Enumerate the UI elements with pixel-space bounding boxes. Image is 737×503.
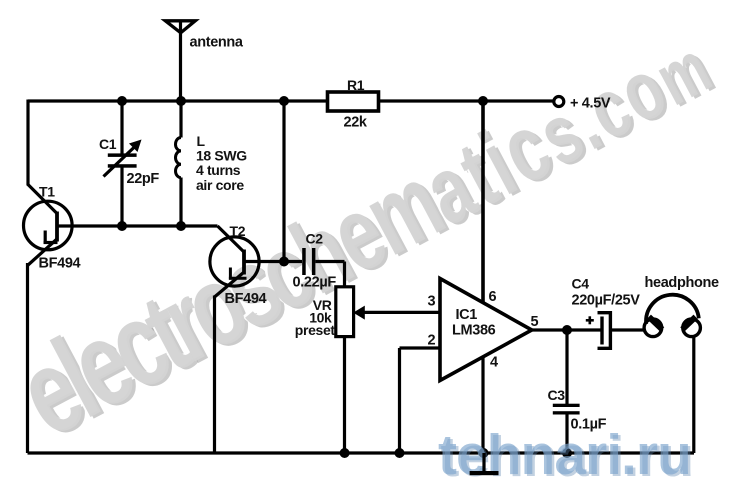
- wire top rail left of R1: [28, 99, 328, 102]
- svg-text:preset: preset: [295, 322, 336, 338]
- wire pin 4 to rail: [481, 358, 484, 454]
- svg-text:BF494: BF494: [39, 256, 81, 272]
- node pin6 top: [478, 96, 488, 106]
- svg-text:T1: T1: [39, 184, 55, 200]
- svg-text:+ 4.5V: + 4.5V: [570, 96, 611, 112]
- node antenna/L top: [176, 96, 186, 106]
- wire T1 emitter vertical: [26, 263, 29, 453]
- wire left vertical (T1 collector up): [26, 100, 29, 186]
- wire headphone right to rail: [692, 337, 695, 454]
- watermark tehnari.ru: [438, 423, 693, 489]
- svg-text:22k: 22k: [344, 115, 368, 131]
- svg-text:T2: T2: [230, 223, 246, 239]
- wire L top: [179, 100, 182, 138]
- capacitor C2: [293, 231, 337, 291]
- node pin2 bottom: [395, 448, 405, 458]
- wire top rail right of R1: [379, 99, 554, 102]
- transistor T1: [24, 184, 81, 272]
- wire top rail to T2 base junction: [282, 101, 285, 262]
- wire C1 bottom: [120, 168, 123, 227]
- svg-text:5: 5: [531, 314, 539, 330]
- node VR bottom: [340, 448, 350, 458]
- wire T2 base lead: [244, 260, 284, 263]
- wire L bottom: [179, 178, 182, 227]
- node pin5 / C4 / C3: [562, 325, 572, 335]
- wire C2 left lead: [284, 260, 302, 263]
- svg-text:headphone: headphone: [645, 275, 719, 291]
- node L bottom: [176, 221, 186, 231]
- svg-text:LM386: LM386: [452, 323, 496, 339]
- node C1 top: [117, 96, 127, 106]
- svg-text:IC1: IC1: [456, 307, 478, 323]
- wire C3 bottom: [565, 415, 568, 454]
- svg-text:4: 4: [490, 355, 498, 371]
- potentiometer VR: [295, 287, 365, 338]
- resistor R1: [328, 92, 379, 111]
- wire C3 top: [565, 330, 568, 404]
- svg-text:R1: R1: [347, 77, 365, 93]
- svg-text:22pF: 22pF: [127, 171, 160, 187]
- svg-text:tehnari.ru: tehnari.ru: [438, 423, 691, 487]
- wire C4 to headphone: [612, 328, 646, 331]
- wire T2 emitter vertical: [213, 296, 216, 454]
- node C1 bottom: [117, 221, 127, 231]
- svg-text:C4: C4: [572, 276, 590, 292]
- transistor T2: [210, 223, 267, 307]
- node T2 base riser top: [279, 96, 289, 106]
- svg-text:4 turns: 4 turns: [196, 162, 241, 178]
- node ground: [479, 448, 489, 458]
- wire T1 collector diagonal: [28, 185, 57, 214]
- wire C2 right lead: [316, 260, 345, 263]
- wire bottom ground rail: [28, 451, 695, 454]
- wire VR wiper to pin 3: [362, 311, 439, 314]
- wire pin 6 from top rail: [481, 101, 485, 303]
- node +4.5V terminal: [554, 97, 564, 107]
- wire T1 base rail to T2: [57, 224, 218, 227]
- wire VR bottom to rail: [343, 337, 346, 454]
- capacitor C4 (electrolytic): [572, 276, 641, 349]
- capacitor C3: [548, 387, 607, 433]
- svg-text:C2: C2: [306, 231, 324, 247]
- node T2 base / C2: [279, 257, 289, 267]
- op-amp IC1 LM386: [428, 279, 539, 381]
- svg-text:BF494: BF494: [225, 291, 267, 307]
- svg-text:C3: C3: [548, 387, 566, 403]
- wire pin 5 output to C4: [532, 328, 601, 331]
- wire pin 2 horizontal: [400, 346, 440, 349]
- svg-text:3: 3: [428, 294, 436, 310]
- svg-text:air core: air core: [196, 177, 244, 193]
- node C3 bottom: [562, 448, 572, 458]
- svg-text:2: 2: [428, 333, 436, 349]
- wire antenna lead: [179, 21, 182, 101]
- svg-text:6: 6: [489, 289, 497, 305]
- wire pin 2 vertical to rail: [398, 348, 401, 453]
- antenna: [165, 21, 195, 33]
- svg-text:C1: C1: [99, 136, 117, 152]
- wire C1 top: [120, 100, 123, 154]
- headphone: [644, 275, 719, 337]
- capacitor C1 (variable): [99, 136, 159, 187]
- wire T2 collector diagonal: [218, 226, 245, 252]
- ground: [470, 453, 499, 475]
- svg-text:0.22µF: 0.22µF: [293, 275, 337, 291]
- svg-text:antenna: antenna: [190, 35, 244, 51]
- svg-text:220µF/25V: 220µF/25V: [572, 293, 641, 309]
- wire C2 to VR top: [343, 262, 346, 289]
- inductor L: [176, 138, 182, 178]
